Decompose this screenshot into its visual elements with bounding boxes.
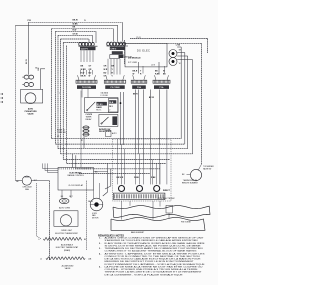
svg-text:ALWAYS CHECK CONNECTIONS OF WI: ALWAYS CHECK CONNECTIONS OF WIRING AFTER… xyxy=(105,237,205,240)
svg-text:RLY 1: RLY 1 xyxy=(96,110,101,112)
svg-text:BLC: BLC xyxy=(35,67,39,69)
svg-text:LA FICHE DE MISE A LA TERRE NE: LA FICHE DE MISE A LA TERRE NE DOIT PAS … xyxy=(105,265,204,268)
svg-text:(2): (2) xyxy=(57,136,60,138)
svg-text:R1 NO: R1 NO xyxy=(97,104,103,106)
svg-text:R BK: R BK xyxy=(151,177,156,179)
svg-text:ALL AROUND: ALL AROUND xyxy=(62,264,74,267)
svg-text:2: 2 xyxy=(109,109,110,111)
svg-text:P1A: P1A xyxy=(160,86,164,89)
svg-text:PL R: PL R xyxy=(137,37,142,39)
svg-text:CLK P1: CLK P1 xyxy=(81,49,89,51)
svg-text:R-W: R-W xyxy=(81,72,85,74)
svg-text:P/N 5V8 BK: P/N 5V8 BK xyxy=(181,221,192,223)
svg-text:R-BK: R-BK xyxy=(155,74,160,76)
svg-text:DLB: DLB xyxy=(109,102,114,104)
svg-text:SI UN FIL DOIT ETRE REMPLACE,: SI UN FIL DOIT ETRE REMPLACE, NE POSER Q… xyxy=(105,244,202,247)
svg-text:RELAY: RELAY xyxy=(86,118,93,121)
svg-text:ATTENTION : L'APPAREIL DOIT ET: ATTENTION : L'APPAREIL DOIT ETRE MIS A L… xyxy=(105,252,206,255)
svg-text:2 -: 2 - xyxy=(99,243,102,245)
svg-text:W: W xyxy=(179,63,181,65)
svg-text:L1 N GD: L1 N GD xyxy=(101,95,109,97)
svg-text:4-100 ELECTRONIC: 4-100 ELECTRONIC xyxy=(158,198,176,200)
svg-text:ELECTRIC THERMOSTAT: ELECTRIC THERMOSTAT xyxy=(56,246,79,249)
svg-text:S P 1.5MF: S P 1.5MF xyxy=(128,62,138,64)
svg-text:DSI MODULE: DSI MODULE xyxy=(128,57,141,59)
svg-text:(REAR): (REAR) xyxy=(64,249,71,252)
svg-text:RANGE CONTROL: RANGE CONTROL xyxy=(67,174,84,177)
svg-text:W-R: W-R xyxy=(104,69,108,71)
svg-text:P33: P33 xyxy=(28,20,31,22)
svg-text:S'ASSURER DE TOUJOURS VERIFIER: S'ASSURER DE TOUJOURS VERIFIER LE CABLAG… xyxy=(105,239,199,242)
svg-text:COUPEE - UTILISER UNE PRISE A: COUPEE - UTILISER UNE PRISE A 3 TROUS MI… xyxy=(105,268,199,271)
svg-text:TURN SW: TURN SW xyxy=(57,132,66,134)
svg-text:BK W: BK W xyxy=(149,97,154,99)
svg-text:CLOCK DISPLAY: CLOCK DISPLAY xyxy=(68,184,84,187)
svg-text:AUTO OVEN: AUTO OVEN xyxy=(59,206,70,209)
svg-text:x: x xyxy=(59,93,60,95)
svg-text:1 2 3 4 5: 1 2 3 4 5 xyxy=(101,92,108,95)
svg-text:P4 CONN: P4 CONN xyxy=(82,86,91,89)
svg-text:IF ANY WIRE OF THIS APPLIANCE: IF ANY WIRE OF THIS APPLIANCE IS REPLACE… xyxy=(105,242,206,245)
svg-text:4 -: 4 - xyxy=(99,252,102,255)
svg-text:MOTOR: MOTOR xyxy=(92,218,99,220)
svg-text:W: W xyxy=(133,74,135,76)
svg-text:BK-R: BK-R xyxy=(133,71,138,73)
svg-text:W BK: W BK xyxy=(134,177,140,179)
svg-text:TERMINAISON DU SECTEUR AVANT D: TERMINAISON DU SECTEUR AVANT DE COMMENCE… xyxy=(105,247,204,250)
svg-text:3 -: 3 - xyxy=(99,248,102,250)
svg-text:ELECTRIC THERMOSTAT: ELECTRIC THERMOSTAT xyxy=(55,232,78,235)
svg-text:VALVE: VALVE xyxy=(27,112,34,115)
svg-text:5 -: 5 - xyxy=(99,266,102,268)
svg-text:CHT 2: CHT 2 xyxy=(111,48,118,50)
svg-text:CONDUCTOR IS CONNECTED TO THE: CONDUCTOR IS CONNECTED TO THE NEUTRAL OF… xyxy=(105,255,201,258)
svg-text:BK W: BK W xyxy=(88,201,93,203)
svg-text:REMOTE ELEMENT: REMOTE ELEMENT xyxy=(182,183,199,185)
svg-text:BK-W: BK-W xyxy=(73,20,78,22)
svg-text:DIRECT: DIRECT xyxy=(163,190,171,192)
svg-text:1 -: 1 - xyxy=(99,238,102,240)
svg-text:FAN: FAN xyxy=(25,188,29,191)
svg-text:BK W: BK W xyxy=(26,59,28,64)
svg-text:W-BK: W-BK xyxy=(73,23,79,25)
svg-text:DE LA SECTION DU CABLAGE ELECT: DE LA SECTION DU CABLAGE ELECTRIQUE DE L… xyxy=(105,258,202,261)
svg-text:BAKE ELEMENT: BAKE ELEMENT xyxy=(131,231,145,234)
svg-text:THERMOSTAT (N): THERMOSTAT (N) xyxy=(183,179,198,182)
svg-text:CONNECTING IT TO ADJACENT TERM: CONNECTING IT TO ADJACENT TERMINAL BLOCK… xyxy=(105,250,198,253)
svg-text:L1 N: L1 N xyxy=(151,64,156,66)
svg-text:P2A: P2A xyxy=(137,86,141,89)
svg-text:W: W xyxy=(89,76,91,78)
svg-text:VALVE: VALVE xyxy=(65,267,72,270)
svg-text:AUTO: AUTO xyxy=(112,132,117,135)
svg-text:W: W xyxy=(84,20,86,22)
svg-text:BK-W: BK-W xyxy=(81,76,86,78)
svg-text:DS ELEC: DS ELEC xyxy=(137,50,150,52)
svg-text:L NE: L NE xyxy=(176,45,181,47)
svg-text:TERRE POUR LA SECURITE DE L'UT: TERRE POUR LA SECURITE DE L'UTILISATEUR … xyxy=(105,271,203,274)
svg-text:FONCTIONNEMENT DE L'APPAREIL -: FONCTIONNEMENT DE L'APPAREIL - VOIR LA P… xyxy=(105,263,206,266)
svg-text:P3 CONN: P3 CONN xyxy=(111,87,120,89)
svg-text:TOP BURNER: TOP BURNER xyxy=(203,166,215,168)
svg-text:L1: L1 xyxy=(40,258,42,260)
svg-text:DE LA CUISINIERE - VOIR LA PLA: DE LA CUISINIERE - VOIR LA PLAQUE SIGNAL… xyxy=(105,273,184,276)
